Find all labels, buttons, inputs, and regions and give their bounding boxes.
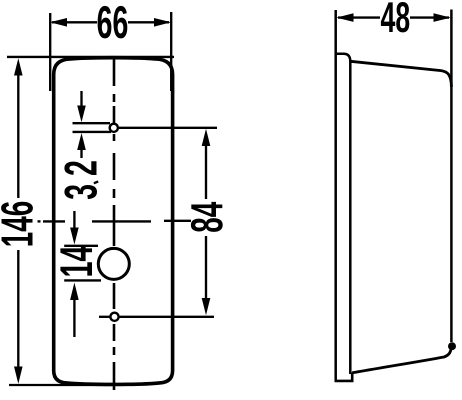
dim 146: top extension line: [7, 56, 174, 58]
leader line from bottom hole to 84 dimension: [120, 316, 215, 318]
dim 48: dimension line left segment with arrow: [338, 16, 380, 18]
side view: back mounting edge (with 48 extension): [334, 10, 337, 382]
vertical centerline: [113, 59, 116, 86]
dim 66: dimension line right segment with arrow: [128, 21, 169, 23]
horizontal centerline: [38, 220, 41, 222]
dim 14: upper tangent extension line: [64, 245, 98, 247]
bottom small hole: [110, 313, 118, 321]
dim 84: value label: [191, 202, 223, 232]
dim 14: lower tangent extension line: [64, 279, 101, 281]
dim 3,2: upper tangent extension line: [73, 122, 111, 124]
top small hole 3.2mm: [110, 124, 118, 132]
leader line from top hole to 84 dimension: [119, 127, 217, 129]
lens hole 14mm circle: [98, 248, 129, 279]
dim 146: dimension line upper segment with up arrow: [17, 74, 19, 198]
dim 48: dimension line right segment with arrow: [410, 16, 449, 18]
leader line left of bottom hole: [99, 316, 110, 318]
side view: screw bump on right edge: [448, 342, 456, 350]
dim 14: lower arrow pointing up: [73, 299, 75, 337]
dim 14: value label: [60, 246, 92, 276]
dim 84: dimension line upper segment with up arrow: [205, 144, 207, 199]
side view: bottom foot notch: [335, 373, 353, 381]
dim 84: dimension line lower segment with down arrow: [205, 236, 207, 300]
dim 3,2: lower tangent extension line: [73, 131, 112, 133]
dim 14: upper arrow pointing down: [73, 211, 75, 228]
dim 66: right extension line: [170, 12, 172, 91]
dim 66: left extension line: [49, 13, 51, 91]
dim 66: value label: [98, 6, 128, 39]
dim 3,2: upper arrow pointing down: [80, 91, 82, 107]
side view: lens right edge (with 48 extension): [450, 10, 453, 343]
side view: flange front line: [349, 60, 352, 374]
dim 3,2: lower arrow pointing up: [80, 148, 82, 158]
dim 146: dimension line lower segment with down arrow: [17, 250, 19, 369]
left view: lamp body outline: [54, 58, 173, 385]
dim 66: dimension line left segment with arrow: [52, 21, 97, 23]
side view: top edge and corner to flange: [335, 54, 351, 62]
dim 146: bottom extension line: [9, 384, 115, 386]
side view: lens top sloped edge with corner: [351, 61, 452, 87]
dim 146: value label: [1, 202, 33, 246]
dim 3,2: value label: [64, 161, 97, 199]
dim 3,2: comma tick of label: [94, 180, 99, 184]
side view: lens bottom curved edge: [352, 344, 451, 373]
dim 48: value label: [381, 2, 409, 32]
